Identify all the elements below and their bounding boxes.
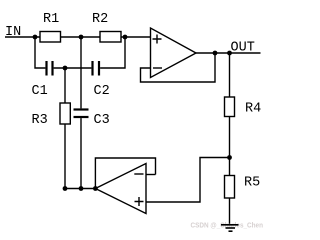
U2 minus sign [134, 173, 143, 175]
wire R3 down to bus [64, 124, 66, 189]
wire R4 to R5 [229, 117, 231, 176]
wire OUT node down to R4 [229, 53, 231, 97]
wire C1/C2 junction down to R3 [64, 68, 66, 103]
resistor R4 [225, 97, 235, 117]
svg-text:R1: R1 [43, 12, 59, 27]
svg-text:R2: R2 [92, 12, 108, 27]
capacitor C1 [47, 61, 53, 76]
junction R3/bus [63, 186, 68, 191]
svg-text:OUT: OUT [231, 41, 255, 56]
junction C1/C2/R3 node [63, 66, 68, 71]
wire IN to R1 [5, 36, 40, 38]
wire U1 feedback loop [141, 53, 216, 82]
capacitor C3 [74, 110, 89, 118]
junction U2 output/feedback [93, 186, 98, 191]
wire R1/R2 junction down to C3 [80, 37, 82, 108]
junction OUT/R4 [227, 51, 232, 56]
resistor R5 [225, 176, 235, 199]
svg-text:C3: C3 [94, 113, 110, 128]
junction U1 output/feedback [213, 51, 218, 56]
op-amp U1 [151, 28, 197, 78]
svg-text:R5: R5 [244, 176, 260, 191]
wire IN node down to C1 [35, 37, 45, 68]
junction R2/C2/U1+ node [123, 35, 128, 40]
capacitor C2 [93, 61, 100, 76]
U1 plus sign [153, 35, 162, 44]
svg-text:C2: C2 [94, 84, 110, 99]
junction C3/bus [79, 186, 84, 191]
op-amp U2 [95, 164, 146, 214]
wire C3 down to bus [80, 118, 82, 188]
wire bus to op-amp U2 output [65, 188, 95, 190]
wire R1 to R2 [61, 36, 101, 38]
wire R2 to op-amp U1 + input [121, 36, 151, 38]
svg-text:R3: R3 [32, 113, 48, 128]
ground [221, 225, 239, 231]
junction R4/R5/U2+ [227, 155, 232, 160]
junction R1/R2/C3 node [79, 35, 84, 40]
resistor R3 [60, 103, 70, 124]
resistor R2 [100, 32, 121, 43]
svg-text:IN: IN [5, 25, 21, 40]
U1 minus sign [153, 67, 162, 69]
wire R5 to ground [229, 198, 231, 225]
svg-text:R4: R4 [245, 102, 261, 117]
wire C1 to C2 [54, 67, 92, 69]
wire C2 up to R2 output node [100, 37, 125, 68]
svg-text:C1: C1 [32, 84, 48, 99]
resistor R1 [40, 32, 61, 43]
wire U2 feedback loop [95, 158, 155, 189]
U2 plus sign [135, 197, 144, 206]
wire U2 + input to R4/R5 junction [146, 158, 230, 203]
junction IN node [33, 35, 38, 40]
wire U1 output to OUT [196, 52, 261, 54]
U2 minus input stub [146, 174, 156, 176]
